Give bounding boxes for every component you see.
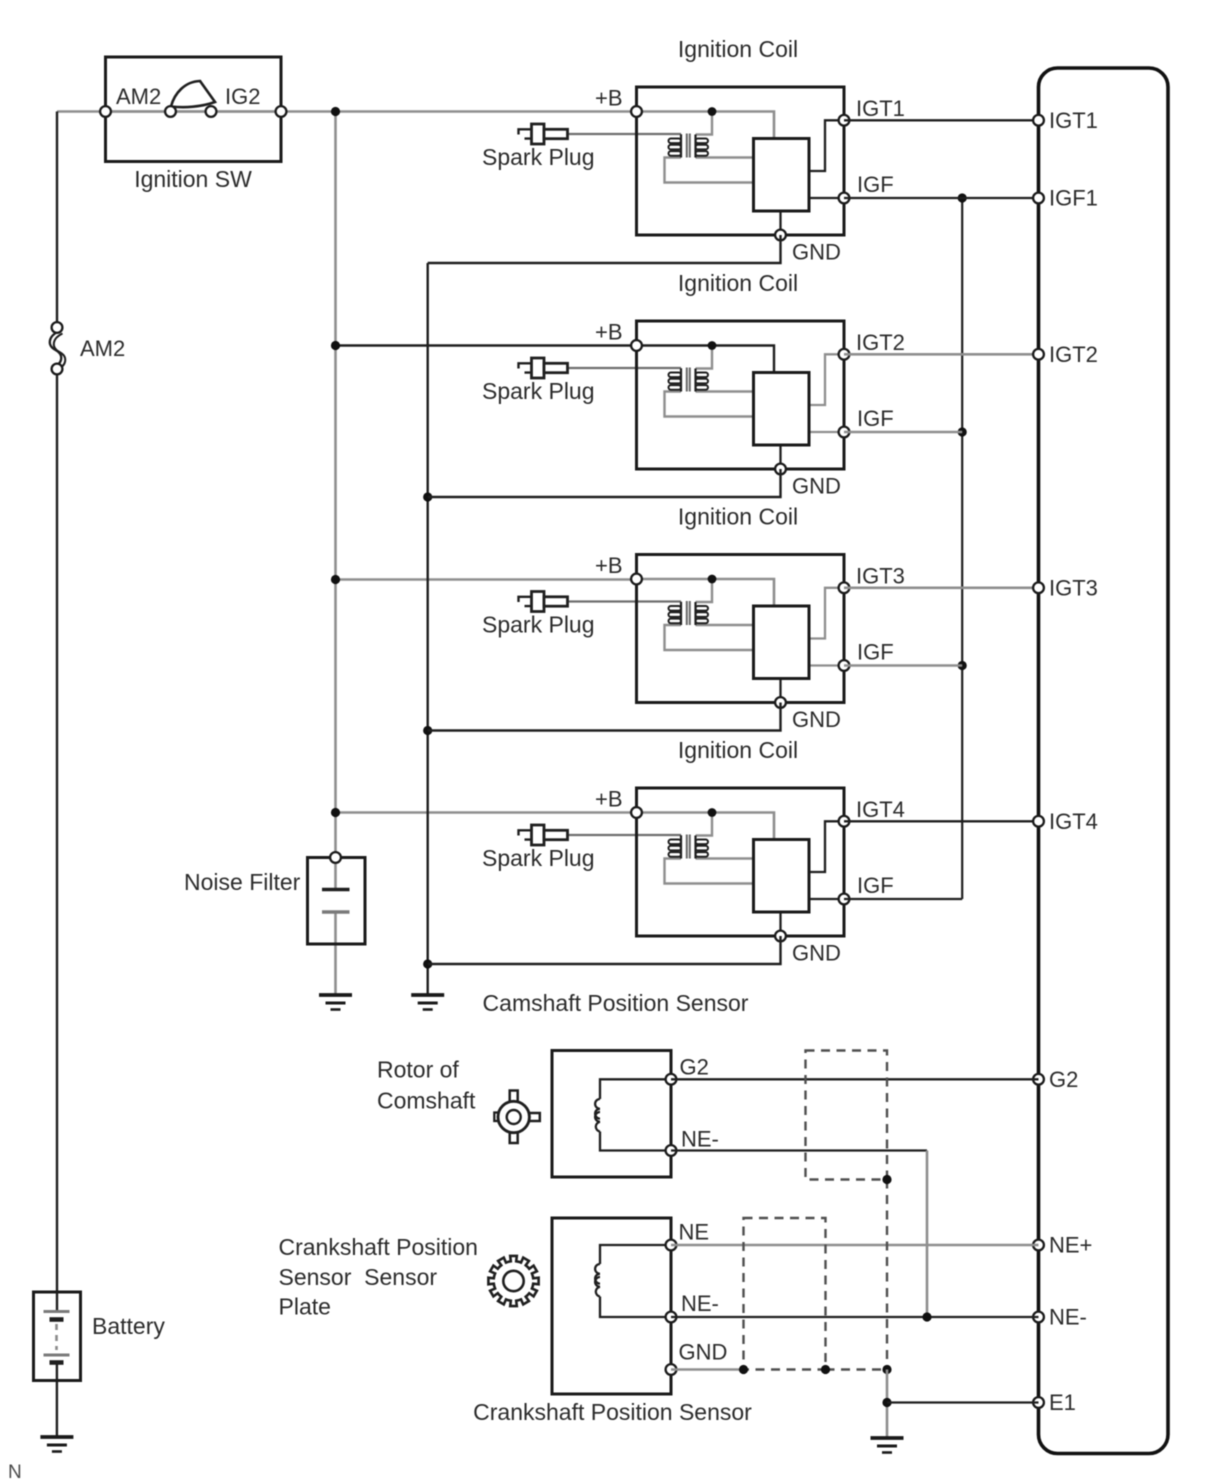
junction coil 4 +B node <box>708 808 717 817</box>
svg-text:IGT3: IGT3 <box>856 564 905 589</box>
wire crankshaft GND <box>671 1368 744 1371</box>
wire fuse to battery <box>56 375 58 1312</box>
ground GND bus <box>411 995 444 1010</box>
ground noise filter <box>319 995 352 1010</box>
svg-text:IGT1: IGT1 <box>856 96 905 121</box>
igniter 4 IGT internal wire <box>809 821 844 872</box>
inductor crankshaft pickup <box>595 1264 600 1297</box>
transformer T4 windings <box>669 835 709 858</box>
svg-text:Spark Plug: Spark Plug <box>482 612 595 638</box>
svg-text:Sensor Sensor: Sensor Sensor <box>279 1264 438 1290</box>
coil 3 +B terminal <box>631 574 642 585</box>
ECU terminal IGT1 <box>1033 115 1044 126</box>
shield drain dashed horizontal <box>826 1368 888 1370</box>
junction GND wire shield left <box>739 1365 748 1374</box>
transformer T2 core <box>687 368 690 392</box>
svg-text:G2: G2 <box>1049 1067 1078 1092</box>
svg-text:NE-: NE- <box>681 1291 719 1316</box>
spark plug 1 <box>519 124 568 144</box>
wire IGF coil 1 to ECU IGF1 <box>844 197 1039 199</box>
svg-text:NE-: NE- <box>681 1127 719 1152</box>
transformer T2 windings <box>669 368 709 391</box>
coil 1 IGT1 terminal <box>839 115 850 126</box>
wire G2 to ECU <box>671 1078 1039 1080</box>
wire +B bus vertical <box>334 112 337 858</box>
transformer T1 core <box>687 134 690 158</box>
ECU terminal IGT2 <box>1033 349 1044 360</box>
switch contact left <box>165 106 176 117</box>
coil 2 secondary bottom wire <box>665 392 754 417</box>
junction coil 3 +B node <box>708 575 717 584</box>
igniter 4 box <box>754 840 810 913</box>
wire IGT2 coil 2 to ECU <box>844 353 1039 356</box>
coil 3 +B internal wire <box>637 579 775 606</box>
ECU terminal NE+ <box>1033 1240 1044 1251</box>
gear crankshaft sensor plate icon <box>488 1256 538 1306</box>
svg-text:IGF: IGF <box>857 873 894 898</box>
junction shield crank corner <box>821 1365 830 1374</box>
wire ignition SW internal <box>106 110 282 113</box>
terminal AM2 of ignition SW <box>100 106 111 117</box>
coil 1 +B internal wire <box>637 112 775 139</box>
coil 1 primary top connector <box>696 112 713 135</box>
coil 3 IGT3 terminal <box>839 582 850 593</box>
igniter 2 IGT internal wire <box>809 354 844 405</box>
junction +B bus coil 2 <box>331 341 340 350</box>
coil 4 primary bottom wire <box>696 857 754 859</box>
igniter 3 IGF internal wire <box>809 664 844 666</box>
wire +B branch to ignition coil 4 <box>336 811 637 814</box>
svg-text:IGT2: IGT2 <box>1049 342 1098 367</box>
svg-text:NE: NE <box>679 1220 710 1245</box>
wire GND coil 4 to ground bus <box>428 936 781 964</box>
svg-text:AM2: AM2 <box>116 84 161 109</box>
svg-text:GND: GND <box>679 1340 728 1365</box>
coil 2 +B internal wire <box>637 346 775 373</box>
ignition coil 3 box <box>637 555 845 703</box>
junction +B bus coil 3 <box>331 575 340 584</box>
svg-text:IGT3: IGT3 <box>1049 575 1098 600</box>
junction +B bus coil 4 <box>331 808 340 817</box>
wire crankshaft NE- to ECU <box>671 1316 1039 1318</box>
junction coil 1 +B node <box>708 107 717 116</box>
svg-text:IG2: IG2 <box>225 84 260 109</box>
coil 3 primary bottom wire <box>696 624 754 626</box>
svg-text:Crankshaft Position Sensor: Crankshaft Position Sensor <box>473 1399 752 1425</box>
igniter 3 IGT internal wire <box>809 588 844 639</box>
fuse AM2 top terminal <box>52 322 63 333</box>
wire E1 to ECU <box>887 1401 1039 1403</box>
wire NE- bus vertical <box>926 1151 929 1318</box>
svg-text:IGF: IGF <box>857 172 894 197</box>
spark plug 4 wire to coil <box>568 834 682 836</box>
igniter 3 GND internal wire <box>779 679 781 703</box>
wire shield to ground <box>886 1370 889 1439</box>
svg-text:NE-: NE- <box>1049 1305 1087 1330</box>
ECU connector body <box>1039 68 1169 1454</box>
svg-text:GND: GND <box>792 474 841 499</box>
crankshaft position sensor box <box>552 1218 671 1394</box>
wire IGT1 coil 1 to ECU <box>844 119 1039 121</box>
coil 4 IGT4 terminal <box>839 816 850 827</box>
svg-text:GND: GND <box>792 941 841 966</box>
svg-text:G2: G2 <box>680 1055 709 1080</box>
ignition coil 1 box <box>637 87 845 235</box>
spark plug 4 <box>519 825 568 845</box>
camshaft sensor G2 terminal <box>666 1074 677 1085</box>
coil 4 +B terminal <box>631 807 642 818</box>
svg-text:+B: +B <box>595 86 623 111</box>
svg-text:GND: GND <box>792 707 841 732</box>
svg-text:Spark Plug: Spark Plug <box>482 845 595 871</box>
coil 3 GND terminal <box>775 697 786 708</box>
svg-text:IGT2: IGT2 <box>856 330 905 355</box>
ECU terminal G2 <box>1033 1074 1044 1085</box>
wire +B branch to ignition coil 3 <box>336 578 637 581</box>
svg-text:Spark Plug: Spark Plug <box>482 378 595 404</box>
svg-text:Noise Filter: Noise Filter <box>184 869 301 895</box>
svg-text:Ignition Coil: Ignition Coil <box>678 504 798 530</box>
svg-text:NE+: NE+ <box>1049 1233 1092 1258</box>
coil 4 secondary bottom wire <box>665 859 754 884</box>
coil 4 +B internal wire <box>637 813 775 840</box>
wire GND coil 1 to ground bus <box>428 235 781 263</box>
svg-text:Crankshaft Position: Crankshaft Position <box>279 1234 478 1260</box>
inductor camshaft pickup <box>595 1099 600 1132</box>
fuse AM2 bottom terminal <box>52 364 63 375</box>
svg-text:+B: +B <box>595 320 623 345</box>
coil 2 IGT2 terminal <box>839 349 850 360</box>
svg-text:E1: E1 <box>1049 1390 1076 1415</box>
ignition switch box <box>106 57 282 162</box>
svg-text:Ignition SW: Ignition SW <box>134 166 252 192</box>
transformer T4 core <box>687 835 690 859</box>
coil 4 GND terminal <box>775 931 786 942</box>
coil 1 secondary bottom wire <box>665 158 754 183</box>
coil 2 +B terminal <box>631 340 642 351</box>
wire GND coil 3 to ground bus <box>428 703 781 731</box>
fuse AM2 <box>50 332 65 370</box>
ECU terminal IGT4 <box>1033 816 1044 827</box>
junction +B bus at ignition SW output <box>331 107 340 116</box>
ignition coil 4 box <box>637 788 845 936</box>
svg-text:IGT4: IGT4 <box>1049 809 1098 834</box>
svg-text:Rotor of: Rotor of <box>377 1057 459 1083</box>
svg-text:Battery: Battery <box>92 1313 165 1339</box>
junction shield at camshaft box <box>882 1175 891 1184</box>
spark plug 1 wire to coil <box>568 133 682 135</box>
wire IGT4 coil 4 to ECU <box>844 820 1039 822</box>
shield crankshaft sensor (dashed) <box>744 1218 826 1370</box>
noise filter terminal <box>330 852 341 863</box>
camshaft sensor NE- terminal <box>666 1145 677 1156</box>
wire IGT3 coil 3 to ECU <box>844 586 1039 589</box>
coil 4 primary top connector <box>696 813 713 836</box>
wire IGF coil 4 to IGF bus <box>844 898 962 900</box>
wire noise filter internal <box>334 858 337 996</box>
noise filter box <box>308 858 366 945</box>
igniter 4 GND internal wire <box>779 912 781 936</box>
igniter 2 box <box>754 373 810 446</box>
svg-text:Ignition Coil: Ignition Coil <box>678 270 798 296</box>
junction IGF bus coil2 IGF <box>958 427 967 436</box>
svg-text:+B: +B <box>595 787 623 812</box>
junction coil 2 +B node <box>708 341 717 350</box>
rotor of camshaft icon <box>494 1091 540 1144</box>
coil 2 primary bottom wire <box>696 390 754 392</box>
coil 2 primary top connector <box>696 346 713 369</box>
coil 1 IGF terminal <box>839 193 850 204</box>
ground sensor shield E1 <box>871 1438 904 1453</box>
junction E1 node <box>882 1398 891 1407</box>
switch contact right <box>206 106 217 117</box>
svg-text:GND: GND <box>792 240 841 265</box>
coil 3 IGF terminal <box>839 660 850 671</box>
igniter 1 box <box>754 139 810 212</box>
wire IGF coil 2 to IGF bus <box>844 431 962 434</box>
ECU terminal NE- <box>1033 1312 1044 1323</box>
battery box <box>34 1292 81 1381</box>
spark plug 3 wire to coil <box>568 600 682 602</box>
coil 3 secondary bottom wire <box>665 625 754 650</box>
junction IGF bus IGF1 <box>958 193 967 202</box>
transformer T1 windings <box>669 134 709 157</box>
igniter 1 GND internal wire <box>779 211 781 235</box>
igniter 1 IGT internal wire <box>809 120 844 171</box>
wire +B branch to ignition coil 2 <box>336 344 637 346</box>
shield drain dashed vertical <box>886 1180 888 1370</box>
junction GND bus coil 2 <box>423 492 432 501</box>
svg-text:Camshaft Position Sensor: Camshaft Position Sensor <box>483 990 749 1016</box>
wire NE to ECU NE+ <box>671 1244 1039 1247</box>
wire GND bus vertical <box>427 263 429 995</box>
terminal IG2 of ignition SW <box>276 106 287 117</box>
spark plug 2 wire to coil <box>568 367 682 369</box>
coil 3 primary top connector <box>696 579 713 602</box>
svg-text:IGF1: IGF1 <box>1049 186 1098 211</box>
spark plug 3 <box>519 592 568 612</box>
junction GND bus coil 4 <box>423 959 432 968</box>
junction IGF bus coil3 IGF <box>958 661 967 670</box>
wire IGF coil 3 to IGF bus <box>844 664 962 667</box>
ignition coil 2 box <box>637 321 845 469</box>
wire battery+ to ignition SW and +B rail <box>57 110 637 113</box>
igniter 4 IGF internal wire <box>809 898 844 900</box>
svg-text:Ignition Coil: Ignition Coil <box>678 737 798 763</box>
battery cell plates <box>44 1312 70 1438</box>
crankshaft sensor GND terminal <box>666 1364 677 1375</box>
igniter 1 IGF internal wire <box>809 197 844 199</box>
crankshaft sensor pickup coil wire <box>600 1245 671 1317</box>
camshaft sensor pickup coil wire <box>600 1079 671 1150</box>
camshaft position sensor box <box>552 1051 671 1178</box>
coil 2 IGF terminal <box>839 427 850 438</box>
switch lever SW1 <box>171 81 215 107</box>
transformer T3 core <box>687 601 690 625</box>
ECU terminal IGF1 <box>1033 193 1044 204</box>
junction NE- bus <box>922 1312 931 1321</box>
svg-text:Spark Plug: Spark Plug <box>482 144 595 170</box>
svg-text:AM2: AM2 <box>80 336 125 361</box>
ECU terminal E1 <box>1033 1397 1044 1408</box>
svg-text:IGT1: IGT1 <box>1049 108 1098 133</box>
svg-text:Comshaft: Comshaft <box>377 1088 476 1114</box>
crankshaft sensor NE terminal <box>666 1240 677 1251</box>
coil 1 primary bottom wire <box>696 156 754 158</box>
coil 1 +B terminal <box>631 106 642 117</box>
coil 2 GND terminal <box>775 464 786 475</box>
crankshaft sensor NE- terminal <box>666 1312 677 1323</box>
coil 1 GND terminal <box>775 230 786 241</box>
svg-text:IGF: IGF <box>857 640 894 665</box>
igniter 3 box <box>754 606 810 679</box>
shield camshaft sensor (dashed) <box>806 1051 888 1180</box>
wire GND coil 2 to ground bus <box>428 469 781 497</box>
wire IGF bus vertical <box>961 198 963 899</box>
ground battery <box>40 1437 73 1452</box>
svg-text:N: N <box>8 1462 22 1483</box>
wire AM2 feed down-left <box>56 112 58 323</box>
svg-text:IGT4: IGT4 <box>856 797 905 822</box>
capacitor noise filter plates <box>322 890 350 913</box>
igniter 2 GND internal wire <box>779 445 781 469</box>
spark plug 2 <box>519 358 568 378</box>
coil 4 IGF terminal <box>839 894 850 905</box>
junction shield drain bottom <box>882 1365 891 1374</box>
svg-text:Ignition Coil: Ignition Coil <box>678 36 798 62</box>
igniter 2 IGF internal wire <box>809 431 844 433</box>
svg-text:IGF: IGF <box>857 406 894 431</box>
wire camshaft NE- horizontal <box>671 1149 927 1151</box>
ECU terminal IGT3 <box>1033 582 1044 593</box>
svg-text:Plate: Plate <box>279 1294 331 1320</box>
svg-text:+B: +B <box>595 553 623 578</box>
junction GND bus coil 3 <box>423 726 432 735</box>
transformer T3 windings <box>669 602 709 625</box>
